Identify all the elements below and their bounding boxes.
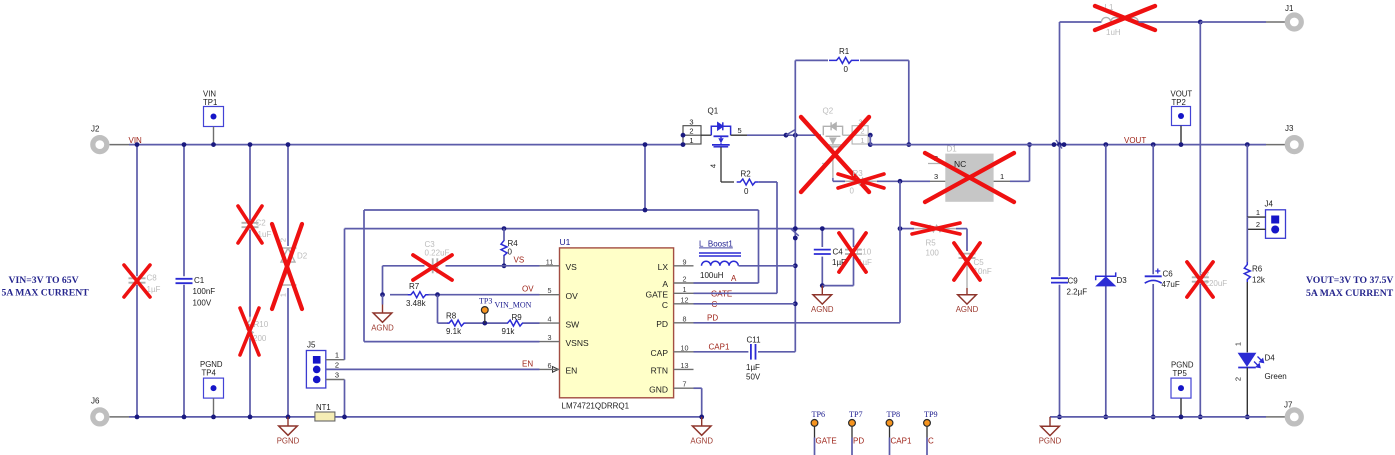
svg-text:PGND: PGND [1171, 360, 1194, 369]
svg-text:2.2µF: 2.2µF [1067, 288, 1088, 297]
U1 pin 6 EN [540, 368, 560, 370]
net tie NT1 [315, 412, 335, 421]
DNP cross over D1 [925, 153, 1014, 202]
svg-text:4: 4 [709, 164, 718, 168]
ground AGND main [701, 417, 703, 426]
connector J5 [306, 351, 325, 389]
U1 pin 9 LX [674, 265, 694, 267]
junction R4 top [502, 226, 507, 231]
svg-text:50V: 50V [746, 372, 761, 381]
U1 pin 1 GATE [674, 292, 694, 294]
svg-text:PD: PD [656, 319, 668, 329]
svg-text:D4: D4 [1265, 354, 1276, 363]
J5 pin 1 wire to R4 feed [326, 359, 345, 361]
svg-text:5: 5 [548, 286, 552, 295]
svg-text:9: 9 [683, 257, 687, 266]
capacitor C1 branch wire [183, 145, 185, 277]
zener diode D3 symbol [1097, 277, 1116, 286]
U1 pin 10 CAP [674, 351, 694, 353]
capacitor C7 (DNP) symbol [1192, 276, 1209, 278]
junction LX riser at C row [793, 301, 798, 306]
svg-text:PD: PD [853, 436, 864, 445]
svg-text:Q1: Q1 [708, 107, 719, 116]
svg-text:1µF: 1µF [746, 363, 760, 372]
capacitor C8 symbol (DNP) [129, 277, 146, 279]
svg-text:R7: R7 [409, 282, 420, 291]
svg-text:1uH: 1uH [1106, 28, 1121, 37]
capacitor C3 (DNP) in VS row [432, 258, 434, 273]
wire LED to ground bus [1246, 368, 1248, 417]
svg-text:GATE: GATE [816, 436, 837, 445]
svg-text:PGND: PGND [200, 360, 223, 369]
capacitor C2 symbol (DNP) [242, 222, 259, 224]
capacitor C10 vertical (DNP) [853, 229, 855, 247]
resistor R6 [1244, 262, 1250, 282]
svg-text:PGND: PGND [277, 436, 300, 445]
svg-text:CAP: CAP [651, 348, 669, 358]
resistor R8 [448, 320, 466, 326]
svg-text:4: 4 [548, 315, 552, 324]
svg-text:9.1k: 9.1k [446, 327, 462, 336]
DNP cross over Q2 [801, 117, 869, 192]
DNP flat cross over R5 [912, 223, 960, 234]
svg-text:GATE: GATE [645, 290, 668, 300]
svg-text:TP9: TP9 [924, 410, 938, 419]
DNP cross over C2 [238, 206, 262, 243]
svg-text:C: C [928, 436, 934, 445]
svg-text:VS: VS [566, 262, 578, 272]
wire R3 to D1 pin 3 [877, 180, 930, 182]
wire L1 to J1 [1139, 21, 1201, 23]
wire snubber row to C5 [956, 228, 967, 230]
connector J2 [93, 138, 107, 152]
junction Q1 box pins on VIN bus [681, 133, 686, 138]
capacitor C1 symbol [176, 278, 193, 280]
D1 pin 1 wire to VOUT bus [994, 180, 1010, 182]
wire divider drop to SW row [437, 295, 439, 323]
wire PD row [694, 322, 901, 324]
ground AGND at divider [382, 295, 384, 305]
wire R4 feed horizontal [345, 228, 854, 230]
svg-text:LX: LX [658, 262, 669, 272]
svg-text:AGND: AGND [690, 436, 713, 445]
svg-text:C11: C11 [747, 336, 762, 345]
svg-text:100V: 100V [193, 299, 212, 308]
svg-text:D3: D3 [1117, 276, 1128, 285]
junction PD riser at R3 row [898, 179, 903, 184]
TVS diode D2 symbol (DNP) [280, 248, 297, 285]
svg-text:R9: R9 [512, 313, 523, 322]
svg-text:C2: C2 [256, 219, 267, 228]
wire GATE row [694, 292, 778, 294]
wire VSNS loop left vertical [363, 210, 365, 342]
svg-text:CAP1: CAP1 [709, 343, 730, 352]
svg-text:3: 3 [548, 333, 552, 342]
wire C4/C10 bottom join [822, 285, 853, 287]
svg-text:R6: R6 [1252, 265, 1263, 274]
junction divider node [380, 292, 385, 297]
svg-text:5A MAX CURRENT: 5A MAX CURRENT [2, 288, 90, 299]
DNP cross over C10 [839, 233, 866, 272]
svg-text:TP4: TP4 [202, 369, 217, 378]
J4 pin 1 wire [1247, 216, 1265, 218]
capacitor C9 branch [1057, 142, 1062, 147]
svg-text:LM74721QDRRQ1: LM74721QDRRQ1 [562, 402, 630, 411]
svg-text:J1: J1 [1285, 4, 1294, 13]
D1 pin 2 stub [928, 163, 945, 165]
svg-text:5: 5 [738, 126, 742, 135]
wire L1 bypass left vertical [1059, 22, 1061, 145]
D1 pin 3 stub [930, 180, 945, 182]
junction TP3 node [482, 321, 487, 326]
svg-text:VOUT: VOUT [1124, 136, 1146, 145]
U1 pin 5 OV [540, 294, 560, 296]
U1 pin 7 GND [674, 387, 694, 389]
wire J6 bottom-left bus [129, 416, 702, 418]
wire LX riser x=795 [794, 60, 796, 351]
svg-text:R10: R10 [254, 320, 269, 329]
svg-text:10: 10 [681, 343, 689, 352]
J4 pin 2 wire [1247, 228, 1265, 230]
U1 pin 2 A [674, 282, 694, 284]
DNP cross over C8 [124, 265, 150, 297]
wire J1 branch vertical through C7 [1199, 22, 1201, 275]
svg-text:12k: 12k [1252, 276, 1266, 285]
svg-text:C9: C9 [1068, 277, 1079, 286]
svg-text:TP8: TP8 [887, 410, 901, 419]
U1 pin 3 VSNS [540, 341, 560, 343]
svg-text:2: 2 [1256, 220, 1260, 229]
svg-text:100: 100 [926, 249, 940, 258]
wire PD riser junction to R5 [899, 228, 914, 230]
connector J7 [1266, 416, 1286, 418]
capacitor C5 branch (DNP) [966, 229, 968, 251]
svg-text:AGND: AGND [811, 305, 834, 314]
svg-text:11: 11 [546, 257, 553, 266]
svg-text:Q2: Q2 [823, 107, 834, 116]
resistor R5 (DNP) in snubber row [914, 226, 956, 232]
junction on VIN bus at TP1 [211, 142, 216, 147]
svg-text:VS: VS [514, 256, 525, 265]
svg-text:C: C [662, 300, 668, 310]
connector J4 [1266, 210, 1286, 239]
DNP flat cross over R3 [838, 174, 884, 188]
svg-text:C10: C10 [857, 248, 872, 257]
svg-text:PD: PD [707, 314, 718, 323]
diode D1 ideal-diode block (DNP) [945, 154, 993, 202]
U1 pin 4 SW [540, 322, 560, 324]
wire A net vertical [758, 210, 760, 283]
wire bottom PGND bus [1050, 416, 1266, 418]
svg-text:0: 0 [850, 187, 855, 196]
DNP cross over R10 [240, 308, 259, 355]
svg-text:EN: EN [566, 366, 578, 376]
svg-text:CAP1: CAP1 [891, 436, 912, 445]
svg-text:1: 1 [689, 136, 693, 145]
J5 pin 3 wire to ground bus [326, 379, 345, 381]
svg-text:SW: SW [566, 319, 580, 329]
wire Q1 drain to Q2 [731, 134, 747, 136]
svg-text:91k: 91k [502, 327, 516, 336]
svg-text:TP2: TP2 [1172, 98, 1186, 107]
svg-text:5A MAX CURRENT: 5A MAX CURRENT [1306, 288, 1394, 299]
svg-text:OV: OV [566, 291, 579, 301]
svg-text:220uF: 220uF [1205, 279, 1228, 288]
resistor R6 branch from VOUT [1245, 142, 1250, 147]
svg-text:AGND: AGND [956, 305, 979, 314]
wire top sense horizontal to A [364, 209, 759, 211]
svg-text:D1: D1 [947, 145, 958, 154]
op-amp U1 LM74721QDRRQ1 body [560, 248, 674, 398]
junction Q2 right pins to VOUT bus [868, 133, 873, 138]
svg-text:A: A [731, 274, 737, 283]
svg-text:0.22uF: 0.22uF [425, 249, 450, 258]
svg-text:J3: J3 [1285, 124, 1294, 133]
connector J6 [93, 410, 107, 424]
svg-text:C4: C4 [833, 248, 844, 257]
wire R2 to GATE net [776, 182, 778, 293]
capacitor C4 vertical [821, 229, 823, 247]
svg-text:VSNS: VSNS [566, 338, 589, 348]
U1 pin 12 C [674, 303, 694, 305]
svg-text:R8: R8 [446, 311, 457, 320]
ground PGND right [1049, 417, 1051, 426]
svg-text:J6: J6 [91, 397, 100, 406]
svg-text:7: 7 [683, 380, 687, 389]
connector J1 [1266, 21, 1286, 23]
svg-text:RTN: RTN [651, 366, 668, 376]
U1 pin 13 RTN no-connect stub [674, 368, 694, 370]
DNP cross over L1 [1095, 6, 1155, 30]
svg-text:AGND: AGND [371, 323, 394, 332]
resistor R7 in OV row [390, 294, 408, 296]
wire C11 to riser [758, 351, 795, 353]
svg-text:J4: J4 [1265, 200, 1274, 209]
svg-text:TP6: TP6 [812, 410, 826, 419]
svg-text:100uH: 100uH [700, 271, 724, 280]
connector J3 [1266, 144, 1286, 146]
svg-text:1: 1 [335, 351, 339, 360]
TVS diode D2 branch wire (DNP) [287, 145, 289, 246]
wire A row [694, 282, 759, 284]
transistor Q1 P-FET symbol [711, 122, 730, 147]
resistor R2 [721, 181, 734, 183]
wire LX to riser [739, 265, 796, 267]
wire VOUT bus [870, 144, 1266, 146]
wire Q2 drain to pin box (DNP) [843, 134, 853, 136]
junction LX riser at LX row [793, 263, 798, 268]
svg-text:R1: R1 [839, 47, 850, 56]
resistor R1 bypass top [795, 59, 828, 61]
svg-text:1: 1 [1256, 208, 1260, 217]
resistor R9 [507, 320, 523, 326]
resistor R4 [503, 229, 505, 240]
svg-text:R5: R5 [926, 239, 937, 248]
wire VS to divider node [382, 266, 384, 295]
capacitor C11 [750, 344, 752, 360]
svg-text:A: A [662, 279, 668, 289]
transistor Q2 P-FET symbol (DNP, mirrored) [823, 122, 842, 147]
DNP cross over C7 [1187, 262, 1213, 297]
svg-text:1: 1 [683, 285, 687, 294]
svg-text:R3: R3 [853, 169, 864, 178]
ground PGND below D2 line [287, 417, 289, 426]
junction LX riser at sense row [793, 226, 798, 231]
wire VSNS horizontal [364, 341, 540, 343]
svg-text:TP5: TP5 [1173, 369, 1188, 378]
ground AGND at C5 [966, 288, 968, 295]
resistor R3 (DNP) [845, 178, 877, 184]
svg-text:TP7: TP7 [849, 410, 863, 419]
svg-text:3: 3 [335, 371, 339, 380]
wire L1 top [1060, 21, 1102, 23]
wire PD riser to R3 row [899, 181, 901, 322]
svg-text:0: 0 [508, 248, 513, 257]
svg-text:13: 13 [681, 361, 689, 370]
wire R6 to LED [1246, 282, 1248, 352]
wire C row [694, 303, 796, 305]
wire vertical VIN tap to sense loop [644, 145, 646, 210]
U1 pin 11 VS [540, 265, 560, 267]
svg-text:1: 1 [1234, 342, 1243, 346]
Q2 gate pin 4 wire (DNP) [832, 147, 834, 178]
svg-text:R2: R2 [741, 170, 752, 179]
Q2 pin group box pins 3/2/1 (DNP) [852, 126, 868, 144]
wire R1 right vertical to VOUT [908, 60, 910, 144]
svg-text:PGND: PGND [1039, 437, 1062, 446]
svg-text:J7: J7 [1284, 401, 1293, 410]
wire VIN bus from J2 to Q1 [129, 144, 683, 146]
DNP cross over D2 [272, 224, 302, 309]
svg-text:C1: C1 [194, 276, 205, 285]
junction pair on Q1 output at R1 tap [784, 133, 789, 138]
svg-text:3: 3 [689, 117, 693, 126]
resistor R10 (DNP) [247, 317, 253, 339]
svg-text:0: 0 [844, 65, 849, 74]
svg-text:VIN=3V TO 65V: VIN=3V TO 65V [9, 275, 79, 286]
junction pair L1 riser on VOUT bus [1052, 142, 1057, 147]
svg-text:3: 3 [934, 172, 938, 181]
svg-text:U1: U1 [560, 237, 571, 247]
svg-text:1: 1 [1000, 172, 1004, 181]
svg-text:2: 2 [335, 360, 339, 369]
svg-text:2: 2 [1234, 377, 1243, 381]
wire VS row [446, 265, 540, 267]
test point TP3 [484, 314, 486, 324]
svg-text:12: 12 [681, 295, 689, 304]
ground AGND at C4 [821, 286, 823, 295]
wire R9 to SW pin [523, 322, 540, 324]
zener diode D3 branch [1103, 142, 1108, 147]
svg-text:6: 6 [548, 361, 552, 370]
J5 pin 2 wire EN [326, 368, 540, 370]
svg-text:J5: J5 [307, 341, 316, 350]
svg-text:VOUT=3V TO 37.5V: VOUT=3V TO 37.5V [1306, 275, 1393, 286]
DNP cross over C5 [954, 243, 980, 280]
svg-text:EN: EN [522, 360, 533, 369]
svg-text:8: 8 [683, 314, 687, 323]
svg-text:GND: GND [649, 384, 668, 394]
Q1 gate pin 4 wire [720, 147, 722, 182]
wire R8 to R9 [466, 322, 508, 324]
svg-text:3.48k: 3.48k [406, 299, 427, 308]
svg-text:0: 0 [744, 187, 749, 196]
capacitor C6 branch [1151, 142, 1156, 147]
U1 pin 8 PD [674, 322, 694, 324]
capacitor C6 polarized symbol [1145, 275, 1162, 277]
svg-text:47uF: 47uF [1162, 280, 1180, 289]
svg-text:NT1: NT1 [316, 403, 331, 412]
junction PD riser at snubber row [898, 226, 903, 231]
svg-text:TP1: TP1 [203, 98, 217, 107]
wire Q1 box to FET [701, 134, 711, 136]
svg-text:OV: OV [522, 285, 534, 294]
svg-text:C5: C5 [974, 258, 985, 267]
svg-text:1: 1 [860, 136, 864, 145]
svg-text:TP3: TP3 [479, 297, 492, 306]
svg-text:2: 2 [689, 127, 693, 136]
capacitor C8 (DNP) branch wire [136, 145, 138, 277]
junction R7 right / R8 top [435, 292, 440, 297]
svg-text:L_Boost1: L_Boost1 [699, 240, 733, 249]
svg-text:D2: D2 [297, 252, 308, 261]
svg-text:2: 2 [683, 275, 687, 284]
svg-text:C8: C8 [147, 274, 158, 283]
wire CAP row to C11 [694, 351, 749, 353]
capacitor C2 + resistor R10 snubber branch wire [249, 145, 251, 221]
DNP cross over C3 [413, 255, 452, 280]
svg-text:J2: J2 [91, 125, 100, 134]
svg-text:VIN_MON: VIN_MON [495, 301, 532, 310]
wire GND pin to ground bus [694, 387, 702, 389]
svg-text:100nF: 100nF [193, 287, 216, 296]
LED D4 symbol [1238, 353, 1257, 367]
svg-text:Green: Green [1265, 372, 1287, 381]
svg-text:C6: C6 [1163, 270, 1174, 279]
Q1 pin group box pins 3/2/1 [683, 126, 701, 144]
